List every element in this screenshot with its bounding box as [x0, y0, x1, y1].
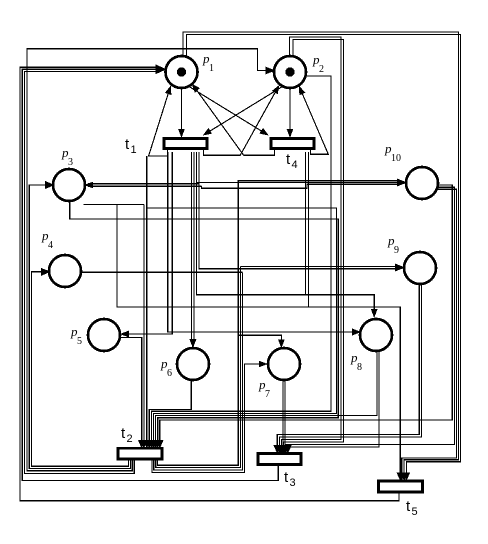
wire branch to p7 top: [238, 335, 284, 347]
svg-text:1: 1: [209, 63, 214, 74]
wire t1 to p6 a: [191, 152, 193, 343]
label p6: [160, 356, 172, 379]
wire p3 lower out to t2: [84, 205, 144, 445]
svg-text:3: 3: [68, 157, 73, 168]
place p5: [88, 319, 120, 351]
wire field y208 to t2: [147, 208, 337, 444]
wire t1 to p8 (long left vertical): [168, 152, 360, 335]
wire t1 to p3 a: [88, 183, 199, 185]
wire t1 to p9 (long): [199, 152, 396, 269]
transition t1: [164, 139, 207, 149]
wire p2 to t4 (vertical): [287, 88, 293, 137]
label p1: [202, 51, 214, 74]
wire t2 to p3 (left bus): [29, 181, 130, 468]
wire p1 top out b (right bus to t5): [187, 35, 461, 475]
wire t2 to p2 (left bus + top route): [27, 49, 275, 471]
svg-text:6: 6: [167, 368, 172, 379]
svg-text:1: 1: [131, 144, 137, 156]
label t2: [121, 425, 133, 445]
label p4: [41, 228, 53, 251]
label p8: [350, 350, 362, 373]
wire p9 to t3 b: [279, 284, 421, 449]
arrow cluster into t3: [274, 445, 292, 453]
label t1: [125, 136, 137, 156]
label t3: [284, 469, 296, 489]
svg-text:5: 5: [412, 506, 418, 518]
transition t2: [118, 448, 162, 459]
wire p8 to t2: [156, 351, 377, 444]
place p2 (marked): [274, 56, 306, 88]
label t5: [406, 498, 418, 518]
label p7: [258, 377, 270, 400]
place p10: [406, 167, 438, 199]
svg-text:9: 9: [394, 245, 399, 256]
svg-text:8: 8: [357, 362, 362, 373]
svg-text:2: 2: [127, 433, 133, 445]
label p10: [384, 141, 401, 164]
wire t1 to p3 b: [85, 182, 202, 188]
wire p5 to t2: [120, 338, 141, 444]
wire p1 to t4 (long diagonal): [189, 87, 268, 136]
place p8: [360, 319, 392, 351]
wire t1 to p8 top: [197, 152, 378, 317]
wire t1 to p10 b (stepped): [202, 184, 400, 188]
wire t2 to p4 (left bus): [32, 268, 129, 466]
wire t1 to p2 (bottom run + diagonal): [204, 86, 280, 156]
place p6: [177, 348, 209, 380]
wire p7 to t3 a: [282, 380, 284, 449]
wire p1 top out a (right bus to t5): [183, 32, 459, 474]
wire t1 to p1 (left loop + diagonal): [149, 86, 172, 156]
wire p2 top out a (to t3): [282, 37, 342, 449]
wire p3 bottom out (long horizontal to t2): [70, 200, 339, 444]
label p5: [70, 324, 82, 347]
wire p10 out c (right bus to t5): [402, 189, 457, 474]
wire t2 to p9 (corridor): [156, 266, 241, 467]
wire t5 to p1 (left bus outer line): [20, 67, 399, 501]
wire to p9 b (from corridor): [241, 264, 405, 271]
transition t3: [258, 454, 301, 465]
arrow cluster into t2: [138, 440, 163, 448]
place p7: [268, 348, 300, 380]
svg-text:4: 4: [292, 159, 298, 171]
arrow into p10: [397, 179, 406, 186]
wire t1 to p5 (via x=172): [121, 152, 173, 337]
place p1 (marked): [166, 56, 198, 88]
wire t4 down b: [308, 152, 310, 307]
svg-text:2: 2: [319, 64, 324, 75]
wire p10 out a (right bus to t2): [160, 185, 453, 444]
svg-text:10: 10: [391, 153, 401, 164]
wire t4 down a: [305, 152, 307, 295]
label p3: [61, 145, 73, 168]
wire t3 to p1 (left bus): [22, 69, 278, 480]
place p3: [53, 169, 85, 201]
wire t1 to p10 a: [197, 182, 399, 184]
svg-text:7: 7: [265, 389, 270, 400]
svg-text:3: 3: [290, 477, 296, 489]
wire t4 to p2 (right loop + diagonal): [299, 86, 328, 154]
wire t1 to p6 b: [190, 152, 197, 347]
wire p3 to t5 main: [117, 205, 400, 475]
place p9: [404, 252, 436, 284]
wire p7 to t3 b: [284, 380, 286, 449]
transition t4: [271, 139, 314, 149]
wire t2 to p10 (corridor): [158, 181, 399, 466]
label p9: [387, 233, 399, 256]
wire t4 to p1 (bottom run + diagonal): [192, 84, 275, 155]
wire t2 to p1 (left bus): [25, 65, 166, 474]
transition t5: [379, 481, 423, 492]
svg-text:4: 4: [48, 240, 53, 251]
wire p2 to t1 (long diagonal): [203, 87, 282, 136]
wire p4 out to corridor: [81, 271, 243, 273]
wire p1 to t1 (vertical): [179, 88, 185, 137]
wire t1 area to t2 (x=146.8): [146, 156, 148, 444]
arrow cluster into t5: [397, 473, 410, 481]
wire p9 to t3 a: [277, 284, 419, 449]
wire p10 out b (right bus to t3): [286, 187, 455, 449]
wire p6 to t2: [149, 380, 191, 444]
place p4: [49, 255, 81, 287]
wire t2 to p7 left (corridor): [152, 361, 267, 472]
svg-text:5: 5: [77, 336, 82, 347]
wire p2 top out b (to t3): [284, 40, 344, 450]
label t4: [286, 151, 298, 171]
wire p2 right out to t2: [151, 76, 331, 444]
wire p8 to t3: [288, 351, 379, 449]
label p2: [312, 52, 324, 75]
wire t2 to p4-line (corridor): [154, 272, 243, 470]
